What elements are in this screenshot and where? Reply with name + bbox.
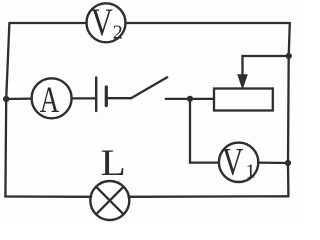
wiper arrowhead — [238, 75, 247, 89]
wire top left horizontal — [9, 22, 86, 24]
wire left rail — [5, 23, 9, 197]
node switch-side junction — [187, 96, 193, 102]
lamp L — [90, 181, 129, 220]
voltmeter V2 — [87, 0, 126, 44]
battery cell: short plate — [105, 87, 108, 106]
ammeter A — [32, 78, 72, 120]
node right upper junction — [286, 53, 292, 59]
svg-text:2: 2 — [113, 21, 123, 43]
wire bottom right — [129, 195, 289, 198]
wire battery to switch — [106, 97, 131, 99]
svg-text:1: 1 — [246, 161, 256, 183]
wire V1 to right rail — [258, 161, 288, 164]
svg-text:A: A — [40, 79, 60, 120]
svg-text:L: L — [100, 143, 125, 184]
wire top right horizontal — [126, 22, 290, 24]
resistor (rheostat) box — [214, 89, 273, 111]
wire wiper arm from right rail — [243, 56, 289, 79]
wire from left rail to ammeter — [6, 97, 32, 100]
battery cell: long plate — [95, 78, 97, 112]
svg-text:V: V — [222, 140, 243, 184]
wire bottom left — [5, 195, 91, 198]
voltmeter V1 — [219, 140, 258, 184]
wire right rail — [288, 23, 290, 196]
node right lower junction — [285, 160, 291, 166]
switch blade (open) — [131, 77, 167, 98]
svg-text:V: V — [91, 0, 113, 44]
wire down from switch node to V1 — [190, 99, 219, 163]
wire ammeter to battery — [72, 97, 95, 99]
node left junction — [3, 96, 9, 102]
wire switch contact to node — [166, 98, 214, 100]
